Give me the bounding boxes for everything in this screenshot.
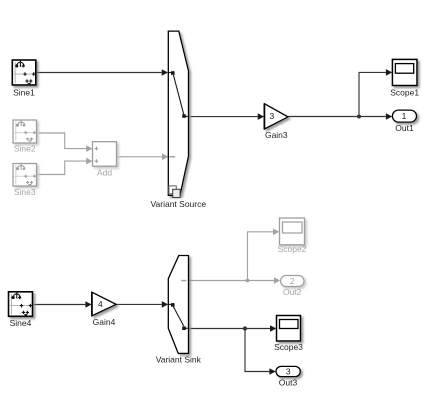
svg-text:Out1: Out1 — [395, 123, 414, 133]
svg-text:Out2: Out2 — [283, 287, 302, 297]
svg-text:Sine3: Sine3 — [14, 187, 36, 197]
svg-text:Variant Sink: Variant Sink — [156, 355, 202, 365]
svg-text:3: 3 — [286, 367, 291, 377]
svg-text:Scope2: Scope2 — [278, 244, 307, 254]
svg-text:Scope1: Scope1 — [390, 87, 419, 97]
svg-text:4: 4 — [98, 299, 103, 309]
svg-text:Gain4: Gain4 — [93, 317, 116, 327]
svg-text:Sine4: Sine4 — [10, 318, 32, 328]
svg-text:3: 3 — [270, 111, 275, 121]
svg-text:1: 1 — [402, 111, 407, 121]
svg-text:Add: Add — [97, 168, 112, 178]
svg-text:Sine2: Sine2 — [14, 144, 36, 154]
svg-text:2: 2 — [290, 276, 295, 286]
svg-text:Gain3: Gain3 — [265, 130, 288, 140]
svg-text:Sine1: Sine1 — [13, 87, 35, 97]
svg-text:Scope3: Scope3 — [274, 342, 303, 352]
svg-text:Out3: Out3 — [279, 378, 298, 388]
svg-text:Variant Source: Variant Source — [150, 199, 206, 209]
